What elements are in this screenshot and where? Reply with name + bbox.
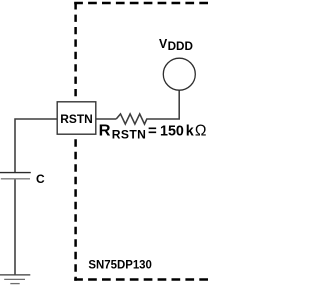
svg-text:RSTN: RSTN [60,113,93,126]
svg-text:RSTN: RSTN [112,127,146,141]
svg-text:V: V [159,36,168,51]
svg-text:C: C [36,172,45,186]
svg-text:Ω: Ω [195,123,207,140]
svg-text:150: 150 [160,124,184,140]
svg-text:=: = [148,123,157,140]
svg-text:R: R [99,123,111,140]
svg-text:SN75DP130: SN75DP130 [88,258,152,272]
svg-text:DDD: DDD [168,40,193,53]
svg-text:k: k [186,124,194,140]
